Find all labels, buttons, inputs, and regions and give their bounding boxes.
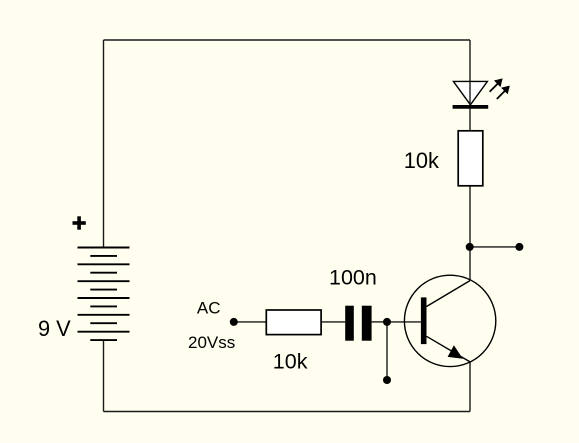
wire resistor R1 to capacitor C1 xyxy=(321,321,345,323)
wire top rail xyxy=(104,39,471,41)
LED D1 triangle xyxy=(453,81,487,104)
resistor R1 10k (horizontal) xyxy=(266,310,321,335)
transistor Q1 body circle xyxy=(404,275,495,366)
svg-text:9 V: 9 V xyxy=(38,316,71,341)
transistor Q1 emitter line xyxy=(427,336,471,362)
svg-text:10k: 10k xyxy=(404,148,439,173)
wire through LED D1 triangle xyxy=(469,81,471,104)
svg-text:AC: AC xyxy=(197,299,221,318)
LED D1 cathode bar xyxy=(453,105,489,109)
node base junction xyxy=(383,318,391,326)
wire battery minus to bottom rail xyxy=(103,340,105,411)
wire LED cathode to resistor R2 xyxy=(469,105,471,131)
transistor Q1 base bar xyxy=(421,297,427,344)
node collector junction xyxy=(466,243,474,251)
battery polarity label + xyxy=(73,216,86,229)
LED D1 light arrow 2 xyxy=(497,86,510,99)
svg-text:20Vss: 20Vss xyxy=(188,333,235,352)
wire bottom rail xyxy=(104,411,471,413)
wire transistor emitter to bottom rail xyxy=(469,362,471,412)
battery B1 9V xyxy=(78,248,130,341)
wire base node stub down to test point xyxy=(386,322,388,380)
resistor R2 10k (vertical) xyxy=(458,131,483,186)
capacitor C1 plate 1 xyxy=(345,306,354,341)
node input terminal xyxy=(230,318,238,326)
wire capacitor C1 to base node xyxy=(372,321,387,323)
wire collector node down to transistor collector xyxy=(469,247,471,281)
wire collector node stub to test point xyxy=(470,246,519,248)
LED D1 light arrow 1 xyxy=(490,78,503,91)
node base test point xyxy=(383,376,391,384)
transistor Q1 collector line xyxy=(427,281,471,307)
node collector test point xyxy=(515,243,523,251)
wire base node to transistor base xyxy=(387,321,421,323)
svg-text:10k: 10k xyxy=(273,350,308,374)
wire right rail (top rail to LED anode) xyxy=(469,40,471,105)
transistor Q1 emitter arrow xyxy=(448,345,463,359)
wire left rail (top rail to battery plus) xyxy=(103,40,105,248)
wire input terminal to resistor R1 xyxy=(234,321,266,323)
svg-text:100n: 100n xyxy=(329,266,377,290)
capacitor C1 plate 2 xyxy=(362,306,372,341)
wire R2 to collector node xyxy=(469,186,471,247)
